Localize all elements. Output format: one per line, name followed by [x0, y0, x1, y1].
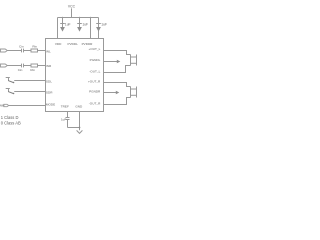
label C3 1uF: [101, 22, 107, 26]
capacitor Ctref bottom plate: [66, 119, 70, 121]
svg-text:PGNDL: PGNDL: [90, 58, 101, 62]
ground of C3: [96, 27, 101, 32]
ground of C1: [60, 27, 65, 32]
pin label +OUT_R: [88, 79, 101, 83]
capacitor C1 link: [62, 24, 64, 28]
wire -OUT_R: [104, 98, 131, 105]
pin label TREF: [61, 105, 69, 109]
port MODE connector: [4, 104, 9, 106]
resistor Rin row1: [31, 49, 38, 52]
wire SDR: [14, 91, 45, 93]
wire TREF to GND net: [68, 127, 80, 129]
pin label -OUT_R: [89, 101, 101, 105]
svg-text:VCC: VCC: [68, 4, 76, 8]
pin label PGNDR: [89, 89, 101, 93]
svg-text:PVDDR: PVDDR: [82, 42, 94, 46]
capacitor C2 plate: [77, 23, 82, 25]
svg-text:-OUT_L: -OUT_L: [89, 69, 100, 73]
svg-text:Rin: Rin: [32, 45, 37, 49]
capacitor C1 1uF stub: [62, 18, 64, 24]
svg-text:PGNDR: PGNDR: [89, 89, 101, 93]
pin label GND: [75, 105, 83, 109]
svg-text:0 Class AB: 0 Class AB: [1, 121, 21, 126]
capacitor C2 1uF stub: [79, 18, 81, 24]
label mode net: [0, 104, 3, 108]
wire INL c: [37, 50, 45, 52]
wire TREF upper: [67, 112, 69, 118]
speaker SPK1 right bar: [136, 55, 138, 66]
switch S2 post: [8, 89, 10, 92]
label C2 1uF: [82, 22, 88, 26]
resistor Rin row2: [31, 64, 38, 67]
pin label +OUT_L: [89, 47, 101, 51]
arrow PGNDR: [104, 92, 117, 94]
capacitor C1 plate: [60, 23, 65, 25]
label C1 1uF: [65, 22, 71, 26]
speaker SPK1 rung top: [131, 56, 137, 58]
wire +OUT_L: [104, 51, 131, 55]
svg-text:TREF: TREF: [61, 105, 69, 109]
svg-text:SDR: SDR: [46, 90, 53, 94]
svg-text:1uF: 1uF: [61, 117, 66, 121]
svg-text:1uF: 1uF: [101, 22, 107, 26]
wire PVDDR pin drop: [98, 18, 100, 39]
ground of C2: [77, 27, 82, 32]
note class mode line2: [1, 121, 21, 126]
svg-text:VDD: VDD: [55, 42, 62, 46]
svg-text:1uF: 1uF: [65, 22, 71, 26]
wire GND pin drop: [79, 112, 81, 131]
wire TREF lower: [67, 120, 69, 128]
label Ctref value: [61, 117, 66, 121]
svg-text:INR: INR: [46, 64, 52, 68]
pin label VDD: [55, 42, 62, 46]
capacitor C3 1uF plate: [96, 23, 101, 25]
junction rail-PVDDL: [90, 17, 92, 19]
svg-text:Rin: Rin: [30, 68, 35, 72]
svg-text:-OUT_R: -OUT_R: [89, 101, 101, 105]
speaker SPK2 rung top: [131, 88, 137, 90]
capacitor Cin right plate (row2): [23, 64, 25, 68]
pin label PGNDL: [90, 58, 101, 62]
capacitor Ctref top plate: [66, 117, 70, 119]
pin label PVDDR: [82, 42, 94, 46]
svg-text:MODE: MODE: [46, 102, 55, 106]
pin label -OUT_L: [89, 69, 100, 73]
label Rin row1: [32, 45, 37, 49]
speaker SPK2 rung bottom: [131, 94, 137, 96]
switch S1 contact dot: [13, 82, 14, 83]
svg-text:1uF: 1uF: [82, 22, 88, 26]
svg-text:GND: GND: [75, 105, 83, 109]
note class mode line1: [1, 115, 19, 120]
switch S1 post: [8, 78, 10, 81]
op-amp U1 amplifier IC body: [46, 39, 104, 112]
ground main: [77, 130, 83, 133]
wire PVDDL pin drop: [90, 18, 92, 39]
speaker SPK2 left bar: [130, 87, 132, 98]
svg-text:SDL: SDL: [46, 80, 52, 84]
capacitor Cin left plate (row1): [21, 49, 23, 53]
pin label INL: [46, 49, 51, 53]
svg-text:+OUT_L: +OUT_L: [89, 47, 101, 51]
mode tick: [2, 105, 4, 107]
svg-text:PVDDL: PVDDL: [68, 42, 79, 46]
wire INL b: [24, 50, 31, 52]
switch S2 bar: [6, 88, 10, 90]
svg-text:Cin: Cin: [18, 68, 23, 72]
pin label SDL: [46, 80, 52, 84]
port INR connector: [1, 64, 8, 67]
speaker SPK1 left bar: [130, 55, 132, 66]
pin label INR: [46, 64, 52, 68]
wire MODE: [9, 105, 46, 107]
wire VCC stub: [71, 8, 73, 17]
capacitor C2 link: [79, 24, 81, 28]
wire VCC rail: [58, 17, 99, 19]
wire INR a: [7, 65, 21, 67]
speaker SPK2 right bar: [136, 87, 138, 98]
label Rin row2: [30, 68, 35, 72]
label Cin row2: [18, 68, 23, 72]
switch S1 bar: [6, 77, 10, 79]
svg-text:INL: INL: [46, 49, 51, 53]
switch S2 contact dot: [13, 93, 14, 94]
pin label MODE: [46, 102, 55, 106]
wire INR b: [24, 65, 31, 67]
junction rail-C2: [79, 17, 81, 19]
wire SDL: [14, 80, 45, 82]
capacitor Cin left plate (row2): [21, 64, 23, 68]
svg-text:+OUT_R: +OUT_R: [88, 79, 101, 83]
pin label PVDDL: [68, 42, 79, 46]
svg-text:Cin: Cin: [19, 45, 24, 49]
pin label SDR: [46, 90, 53, 94]
speaker SPK1 rung bottom: [131, 62, 137, 64]
arrow PGNDL: [104, 61, 118, 63]
wire +OUT_R: [104, 83, 131, 87]
wire INR c: [37, 65, 45, 67]
switch S2 blade: [9, 92, 14, 94]
node VCC label: [68, 4, 76, 8]
junction TREF-GND: [79, 127, 81, 129]
label Cin row1: [19, 45, 24, 49]
wire -OUT_L: [104, 66, 131, 73]
wire VDD pin drop: [57, 18, 59, 39]
port INL connector: [1, 49, 8, 52]
capacitor Cin right plate (row1): [23, 49, 25, 53]
switch S1 blade: [9, 81, 14, 83]
junction rail-C1: [62, 17, 64, 19]
svg-text:1 Class D: 1 Class D: [1, 115, 19, 120]
wire INL a: [7, 50, 21, 52]
